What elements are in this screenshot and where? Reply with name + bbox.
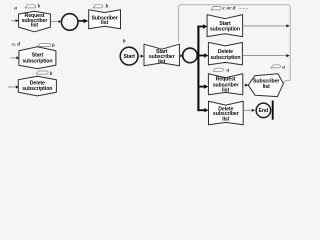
node L4 Delete subscription <box>18 76 56 96</box>
Start circle <box>120 47 138 65</box>
bold branch arrow to Request subscriber list (right) <box>199 86 204 88</box>
svg-text:subscription: subscription <box>22 59 52 65</box>
connector circle (middle) <box>183 48 198 63</box>
wire Request subscriber list to Subscriber list hexagon <box>243 84 246 86</box>
svg-text:c, d: c, d <box>12 41 20 47</box>
bold branch arrow to Delete subscriber list (right) <box>197 109 204 111</box>
system boundary container <box>178 5 290 84</box>
svg-text:list: list <box>222 88 230 94</box>
node R8 Request subscriber list <box>208 74 242 95</box>
hexagon Subscriber list (right) <box>248 74 283 97</box>
svg-text:a: a <box>14 6 17 12</box>
svg-text:Delete: Delete <box>218 49 233 55</box>
wire Start subscription to boundary <box>243 25 287 27</box>
svg-text:Start: Start <box>123 54 135 60</box>
bold arrow circle to Subscriber list <box>79 20 84 22</box>
svg-text:list: list <box>222 116 230 122</box>
wire into Delete subscription (left) <box>8 86 16 88</box>
node R1 Request subscriber list <box>19 11 51 32</box>
svg-text:list: list <box>158 59 166 65</box>
svg-text:list: list <box>101 20 109 26</box>
icon above Start subscription (left) <box>38 44 51 47</box>
icon above Request subscriber list (right) <box>213 68 223 71</box>
svg-text:a: a <box>227 68 230 74</box>
node R9 Delete subscriber list <box>209 101 244 125</box>
node R7 Delete subscription <box>208 42 242 65</box>
icon above Subscriber list <box>93 5 103 8</box>
wire into Request subscriber list (left) <box>11 20 16 22</box>
End circle <box>256 103 271 118</box>
bold branch arrow to Delete subscription (right) <box>199 55 204 57</box>
wire into Start subscription (left) <box>10 57 16 59</box>
node M5 Start subscriber list <box>144 44 179 66</box>
End bar <box>272 101 274 120</box>
svg-text:list: list <box>31 23 39 29</box>
icon above node R1 <box>25 5 36 8</box>
svg-text:c or d: c or d <box>223 6 236 12</box>
icon above hexagon <box>271 65 280 68</box>
svg-text:b: b <box>38 4 41 10</box>
bold branch arrow to Start subscription (right) <box>197 26 203 28</box>
svg-text:b: b <box>50 71 53 77</box>
svg-text:End: End <box>259 108 269 114</box>
icon above Delete subscription (left) <box>36 71 48 74</box>
svg-text:list: list <box>263 84 271 90</box>
svg-text:b: b <box>52 43 55 49</box>
svg-text:subscription: subscription <box>210 55 240 61</box>
wire Start subscriber list to connector circle <box>179 55 180 57</box>
svg-text:a: a <box>282 64 285 70</box>
svg-text:b: b <box>106 4 109 10</box>
svg-text:subscription: subscription <box>22 86 52 92</box>
thick bus line <box>197 26 199 112</box>
node L3 Start subscription <box>19 47 56 69</box>
icon c or d (container top) <box>211 7 221 10</box>
svg-text:subscription: subscription <box>210 26 240 32</box>
node L2 Subscriber list <box>89 10 121 29</box>
wire Start to Start subscriber list <box>139 55 141 57</box>
connector circle (top-left) <box>61 14 78 31</box>
svg-text:b: b <box>123 38 126 44</box>
wire Delete subscriber list to End <box>243 109 252 111</box>
node R6 Start subscription <box>207 15 243 37</box>
wire node R1 to connector circle <box>50 21 58 23</box>
wire Delete subscription to boundary <box>242 55 286 57</box>
